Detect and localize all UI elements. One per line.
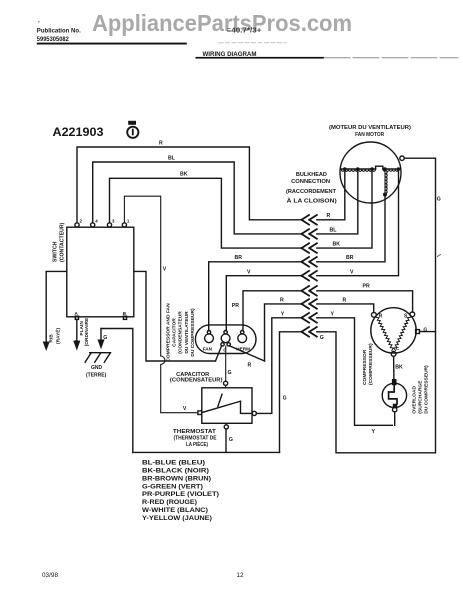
svg-text:(TERRE): (TERRE) [86, 373, 107, 379]
svg-text:BK: BK [333, 242, 341, 248]
fan motor M1 body [340, 142, 401, 203]
plain arrowhead [73, 341, 80, 351]
motor frame ground terminal [400, 156, 404, 160]
svg-text:BK: BK [180, 172, 188, 178]
svg-text:BK: BK [395, 365, 403, 371]
svg-text:2: 2 [80, 219, 83, 224]
svg-text:À LA CLOISON): À LA CLOISON) [287, 197, 337, 204]
bulkhead chevrons row7 R [302, 299, 317, 309]
svg-text:Y-YELLOW (JAUNE): Y-YELLOW (JAUNE) [142, 515, 212, 522]
svg-text:WIRING DIAGRAM: WIRING DIAGRAM [203, 51, 257, 58]
thermostat actuator tick [218, 394, 222, 406]
svg-text:(RAYÉ): (RAYÉ) [53, 328, 61, 344]
svg-text:SWITCH: SWITCH [53, 241, 59, 262]
svg-text:S: S [404, 314, 408, 320]
bulkhead chevrons row6 PR [302, 286, 317, 296]
svg-text:BR-BROWN (BRUN): BR-BROWN (BRUN) [142, 475, 211, 482]
compressor start winding [394, 317, 411, 350]
svg-text:1: 1 [127, 219, 130, 224]
wire ground terminal to G bus [420, 331, 436, 333]
svg-text:COMPRESSOR: COMPRESSOR [362, 349, 368, 385]
svg-text:DU COMPRESSEUR): DU COMPRESSEUR) [423, 365, 429, 414]
C terminal [221, 331, 231, 353]
CAPACITOR-THERMOSTAT [166, 303, 265, 452]
svg-text:LA PIÈCE): LA PIÈCE) [186, 440, 208, 448]
wire BK row3 right to motor tap3 [317, 171, 372, 248]
svg-text:BL-BLUE (BLEU): BL-BLUE (BLEU) [142, 460, 205, 467]
winding end junction [397, 167, 401, 171]
svg-text:(CONDENSATEUR: (CONDENSATEUR [178, 311, 184, 354]
svg-text:(COMPRESSEUR): (COMPRESSEUR) [368, 343, 374, 385]
svg-text:G: G [423, 327, 427, 333]
aux vertical coil [385, 171, 387, 194]
compressor S terminal [404, 312, 415, 320]
svg-text:12: 12 [237, 572, 245, 579]
winding tap junction 4 [383, 167, 387, 171]
winding tap junction 1 [343, 167, 347, 171]
wire rib from switch left side [46, 271, 67, 342]
compressor M2 body [371, 308, 416, 353]
label Publication No. [37, 28, 81, 43]
LEGEND-FOOTER [42, 460, 244, 580]
bulkhead chevrons row5 V [302, 271, 317, 281]
WIRES-LEFT [43, 140, 302, 452]
aux coil bottom junction [383, 193, 387, 197]
wire G capacitor C to thermostat [225, 346, 227, 381]
svg-text:BK-BLACK (NOIR): BK-BLACK (NOIR) [142, 468, 209, 475]
svg-text:(ORDINAIRE): (ORDINAIRE) [84, 316, 90, 347]
svg-text:(CONTACTEUR): (CONTACTEUR) [60, 222, 66, 262]
svg-text:R: R [327, 213, 331, 219]
ground bus bottom left [133, 451, 280, 453]
svg-text:BL: BL [330, 227, 338, 233]
svg-text:B: B [123, 311, 127, 316]
thermostat left terminal [198, 411, 202, 415]
wire R row1 right to motor tap1 [317, 171, 345, 220]
svg-text:R-RED (ROUGE): R-RED (ROUGE) [142, 499, 197, 506]
overload OL1 body [382, 383, 406, 407]
bulkhead chevrons row8 Y [302, 313, 317, 323]
svg-text:R: R [248, 363, 252, 369]
bulkhead chevrons row9 G [302, 327, 317, 337]
wire G row9 left down to ground bus [280, 332, 302, 453]
svg-text:FAN: FAN [203, 347, 213, 352]
overload bottom terminal [393, 404, 397, 408]
svg-text:A221903: A221903 [53, 126, 105, 139]
wire R from pin2 [77, 147, 302, 223]
svg-text:≡40.7*/3+: ≡40.7*/3+ [227, 25, 262, 34]
wire G to ground [101, 329, 133, 453]
wire V row5 left to capacitor C [226, 276, 301, 331]
thermostat T1 box [202, 388, 252, 424]
timer icon [127, 121, 138, 138]
wire V joint diagonal to capacitor C [216, 346, 222, 361]
overload top terminal [392, 379, 397, 385]
wire BK compressor C to overload [393, 356, 395, 379]
switch pin A [75, 311, 79, 320]
svg-text:V: V [163, 267, 167, 273]
svg-text:3: 3 [112, 219, 115, 224]
header rule under publication number [37, 43, 187, 45]
svg-text:W-WHITE (BLANC): W-WHITE (BLANC) [142, 507, 208, 514]
wire G arrow stem [100, 329, 102, 341]
compressor run winding [376, 317, 394, 350]
thermostat label [173, 429, 217, 448]
wire V row5 right to motor winding end [317, 170, 399, 275]
svg-text:FAN MOTOR: FAN MOTOR [355, 132, 384, 138]
HERM terminal [236, 331, 250, 352]
fan motor label [329, 125, 411, 138]
svg-text:Y: Y [372, 429, 376, 435]
svg-text:Publication No.: Publication No. [37, 28, 81, 35]
wire V from pin1 to thermostat (with hop) [124, 196, 197, 413]
wire BK from pin3 [110, 178, 302, 248]
svg-text:PR-PURPLE (VIOLET): PR-PURPLE (VIOLET) [142, 491, 219, 498]
svg-text:V: V [183, 406, 187, 412]
svg-text:R: R [379, 313, 383, 319]
main winding coil bumps [341, 169, 375, 171]
wire BL row2 right to motor tap2 [317, 171, 358, 234]
svg-text:03/98: 03/98 [42, 572, 58, 579]
capacitor C1 body [195, 325, 256, 354]
svg-text:(SURCHARGE: (SURCHARGE [418, 380, 424, 414]
rib arrowhead [43, 342, 50, 352]
svg-text:GND: GND [91, 365, 103, 371]
svg-text:PR: PR [363, 284, 370, 290]
wire Y row8 right to overload bottom [317, 318, 393, 426]
svg-text:R: R [343, 298, 347, 304]
svg-text:R: R [159, 140, 163, 146]
winding tap junction 2 [356, 167, 360, 171]
BULKHEAD [133, 158, 441, 453]
bulkhead chevrons row4 BR [302, 257, 317, 267]
scan dot [38, 21, 40, 23]
svg-text:PLAIN: PLAIN [79, 321, 85, 336]
svg-text:COMPRESSOR AND FAN: COMPRESSOR AND FAN [166, 303, 172, 362]
switch pin B [123, 311, 127, 320]
wire PR row6 left to capacitor HERM [243, 291, 302, 331]
svg-text:(RACCORDEMENT: (RACCORDEMENT [286, 189, 337, 195]
svg-text:DU COMPRESSEUR): DU COMPRESSEUR) [190, 308, 196, 357]
watermark AppliancePartsPros.com [92, 10, 352, 36]
bulkhead chevrons row1 R [302, 215, 317, 225]
capacitor label [170, 372, 223, 384]
wire Y row8 left to thermostat right terminal [256, 318, 301, 414]
svg-text:V: V [247, 269, 251, 275]
svg-text:OVERLOAD: OVERLOAD [412, 386, 418, 414]
wire G thermostat bottom to ground bus [225, 429, 227, 452]
wire BL from pin4 [93, 162, 302, 234]
thermostat right terminal [252, 411, 256, 415]
svg-text:AppliancePartsPros.com: AppliancePartsPros.com [92, 10, 352, 36]
svg-text:(MOTEUR DU VENTILATEUR): (MOTEUR DU VENTILATEUR) [329, 125, 411, 131]
ground symbol GND [85, 353, 110, 379]
svg-text:PR: PR [232, 303, 239, 309]
svg-text:R: R [280, 298, 284, 304]
wire R diagonal from capacitor C [230, 346, 265, 361]
svg-text:Y: Y [281, 311, 285, 317]
svg-text:RIB: RIB [48, 334, 54, 343]
svg-text:A: A [75, 311, 79, 316]
wire BR row4 left to capacitor FAN [209, 262, 302, 331]
switch pin 2 [75, 219, 83, 227]
switch S1 box [67, 227, 134, 317]
svg-text:CAPACITOR: CAPACITOR [171, 318, 177, 347]
wire BR row4 right to motor aux coil [317, 196, 385, 261]
svg-text:(CONDENSATEUR): (CONDENSATEUR) [170, 378, 223, 384]
wire G row9 right loop to motor frame [317, 158, 436, 453]
svg-text:G: G [283, 395, 287, 401]
thermostat bottom terminal [224, 425, 228, 429]
svg-text:G: G [228, 370, 232, 376]
svg-text:BL: BL [168, 155, 176, 161]
MOTOR [329, 125, 411, 203]
winding step [376, 166, 383, 169]
switch pin 4 [91, 219, 99, 227]
svg-text:4: 4 [95, 219, 98, 224]
bulkhead chevrons row3 BK [302, 243, 317, 253]
svg-text:BR: BR [235, 255, 243, 261]
wire R row7 right to compressor R [317, 304, 374, 313]
thermostat switch blade [202, 401, 241, 412]
compressor ground terminal [416, 327, 428, 333]
svg-text:V: V [350, 269, 354, 275]
FAN terminal [203, 331, 214, 352]
svg-text:CONNECTION: CONNECTION [291, 179, 330, 185]
thermostat top terminal [224, 381, 228, 385]
svg-text:BULKHEAD: BULKHEAD [296, 172, 327, 178]
svg-text:(THERMOSTAT DE: (THERMOSTAT DE [174, 435, 218, 441]
svg-text:G-GREEN (VERT): G-GREEN (VERT) [142, 483, 203, 490]
svg-text:THERMOSTAT: THERMOSTAT [173, 429, 217, 435]
wire R row7 left toward capacitor [265, 304, 302, 361]
COMPRESSOR-OVERLOAD [362, 308, 436, 426]
main winding chord [341, 168, 400, 170]
faint dashed rule continuation [219, 42, 286, 44]
compressor R terminal [372, 312, 383, 319]
switch pin 3 [107, 219, 115, 227]
switch pin 1 [122, 219, 130, 227]
stray scan tick [438, 255, 441, 257]
svg-text:G: G [229, 437, 233, 443]
svg-text:5995305082: 5995305082 [37, 36, 70, 43]
wire plain from pin A [76, 320, 77, 341]
compressor C terminal [391, 346, 400, 356]
svg-text:G: G [320, 335, 324, 341]
winding tap junction 3 [370, 167, 374, 171]
bulkhead chevrons row2 BL [302, 229, 317, 239]
svg-text:Y: Y [331, 311, 335, 317]
thermostat right contact [241, 401, 253, 413]
wire PR row6 right to compressor S [317, 291, 413, 312]
bulkhead connection label [286, 172, 337, 204]
svg-text:DU VENTILATEUR: DU VENTILATEUR [184, 311, 190, 354]
overload element [389, 385, 397, 404]
wire overload to Y bus [394, 412, 396, 425]
title underline (solid then faded) [196, 57, 325, 59]
wire V from switch right side to capacitor joint [134, 271, 216, 361]
ground arrowhead [98, 340, 105, 350]
svg-text:G: G [437, 196, 441, 202]
svg-text:BR: BR [346, 255, 354, 261]
